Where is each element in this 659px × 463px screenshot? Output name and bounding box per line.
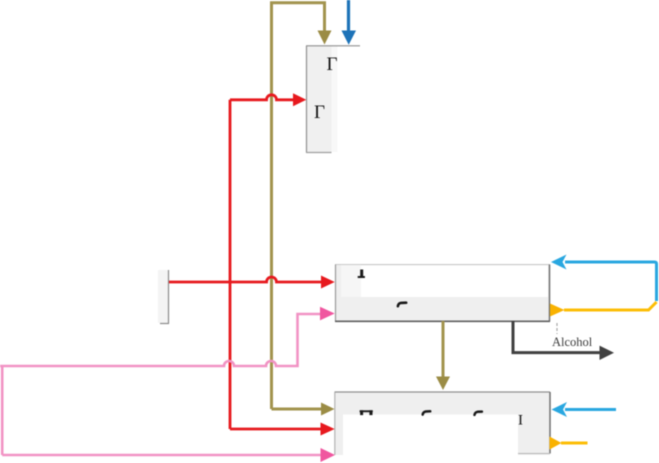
box B3 border bottom partial — [518, 453, 550, 455]
box B1 border bottom — [306, 152, 332, 154]
box B3 bottom (regenerator) fill — [335, 392, 551, 455]
glyph б-top 1 in box B3 — [423, 411, 431, 414]
box B4 small source box left — [158, 270, 169, 324]
arrowhead orange at B2 right — [550, 304, 565, 317]
wire orange out of B3 right — [561, 442, 588, 445]
box B1 border top — [306, 45, 360, 47]
arrowhead cyan into B3 right — [552, 402, 568, 417]
wire khaki B2 to B3 — [442, 321, 445, 377]
arrowhead red into B1 left — [293, 93, 306, 106]
box B2 middle (absorber) fill — [335, 265, 550, 322]
wire red bottom branch — [230, 428, 321, 431]
box B2 border left — [335, 265, 337, 322]
arrowhead red into B2 left — [321, 276, 335, 289]
wire orange out of B2 right — [564, 302, 657, 310]
wire red top branch with hop — [230, 95, 294, 100]
wire pink left drop — [1, 366, 4, 455]
glyph б-top in box B2 — [398, 303, 406, 307]
arrowhead dark alcohol — [600, 346, 615, 360]
glyph б-top 2 in box B3 — [475, 412, 482, 415]
svg-text:Г: Г — [314, 102, 325, 123]
arrowhead khaki into B3 left — [321, 403, 335, 416]
wire red trunk vertical — [229, 100, 232, 429]
box B3 border left — [334, 392, 336, 455]
wire red middle branch with hop — [169, 277, 322, 282]
wire dark alcohol line — [513, 321, 600, 353]
box B1 border left — [306, 46, 308, 153]
wire cyan bottom into B3 — [565, 408, 616, 411]
wire cyan top return into B2 — [565, 262, 657, 301]
arrowhead pink into B2 left — [320, 307, 335, 321]
arrowhead khaki into B3 top — [436, 377, 450, 391]
box B2 border bottom — [335, 320, 550, 322]
arrowhead khaki into B1 top — [318, 31, 332, 45]
glyph stem in box B2 — [358, 270, 365, 279]
arrowhead pink into B3 left — [321, 448, 336, 462]
svg-text:I: I — [518, 412, 523, 428]
svg-text:Alcohol: Alcohol — [552, 335, 593, 349]
wire pink main with hops into B2 — [0, 314, 321, 366]
box B1 top (gas unit) fill — [307, 46, 338, 152]
wire pink bottom run — [2, 454, 321, 457]
wire khaki bottom run into B3 — [272, 408, 323, 411]
box B2 border right — [549, 265, 551, 322]
arrowhead red into B3 left — [321, 423, 335, 436]
glyph П-top in box B3 — [360, 410, 373, 415]
box B2 border top — [335, 264, 550, 266]
wire blue feed into B1 — [347, 0, 350, 31]
box B3 border top — [335, 391, 551, 393]
arrowhead cyan into B2 right — [551, 255, 567, 270]
arrowhead blue into B1 top — [342, 31, 357, 45]
wire khaki recycle: top run into B1 — [272, 3, 325, 409]
arrowhead orange at B3 right — [550, 437, 562, 450]
svg-text:Г: Г — [327, 54, 338, 75]
leader dash above alcohol — [556, 323, 558, 334]
box B3 border right — [549, 392, 551, 454]
